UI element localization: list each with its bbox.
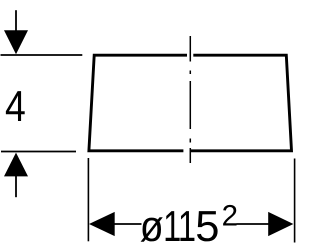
- extension line left (diameter dim): [87, 158, 89, 241]
- trapezoid body left half (top-left edge, left side, bottom-left edge): [89, 55, 187, 151]
- svg-text:2: 2: [222, 200, 238, 233]
- arrow up (height dim): [4, 153, 28, 198]
- svg-text:5: 5: [195, 203, 219, 250]
- arrow left (diameter dim): [89, 212, 142, 236]
- dimension line top (height 4, upper reference): [1, 54, 83, 56]
- arrow down (height dim): [4, 10, 28, 54]
- centerline (dash-dot vertical axis): [189, 36, 191, 163]
- dimension line bottom (height 4, lower reference): [1, 151, 76, 153]
- svg-text:ø: ø: [140, 203, 164, 250]
- label ø115 (diameter value): [140, 203, 220, 250]
- trapezoid body right half (top-right edge, right side, bottom-right edge): [190, 55, 292, 151]
- svg-text:4: 4: [5, 83, 26, 131]
- svg-text:1: 1: [178, 203, 196, 250]
- arrow right (diameter dim): [237, 212, 294, 236]
- extension line right (diameter dim): [294, 159, 296, 243]
